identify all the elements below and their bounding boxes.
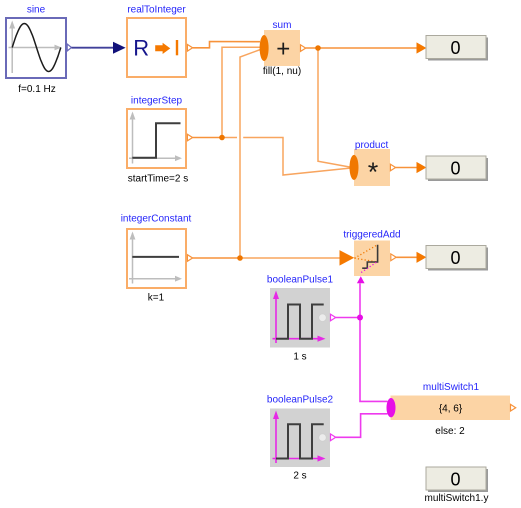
block integerStep [127, 109, 186, 168]
wire booleanPulse1.y to multiSwitch1.u[1] [360, 318, 388, 402]
wire integerStep.y to product.u[2] (gap at crossing x=240) [222, 137, 237, 139]
junction integerConstant.y [237, 255, 243, 261]
pin triggeredAdd.u input connector [340, 250, 355, 266]
svg-text:multiSwitch1: multiSwitch1 [423, 382, 480, 393]
pin product.y output connector [390, 164, 395, 171]
svg-text:integerStep: integerStep [131, 96, 183, 107]
display showValue2 [426, 246, 488, 271]
wire sum.y to product.u[1] [318, 48, 351, 167]
junction booleanPulse1.y [357, 315, 363, 321]
pin sum.y output connector [301, 45, 306, 52]
wire product.y to showValue1 [396, 167, 417, 169]
arrow into showValue2 [417, 252, 427, 263]
display showValue3 [426, 467, 488, 492]
wire integerStep.y to sum.u[2] [222, 47, 260, 137]
pin booleanPulse2.y output connector [331, 434, 336, 441]
pin multiSwitch1.y output connector [511, 404, 516, 411]
pin realToInteger.u input connector [113, 42, 126, 54]
svg-text:startTime=2 s: startTime=2 s [128, 174, 188, 185]
svg-text:integerConstant: integerConstant [121, 214, 192, 225]
svg-text:k=1: k=1 [148, 293, 165, 304]
block booleanPulse2 [270, 409, 330, 468]
display showValue1 [426, 156, 488, 181]
svg-text:R: R [133, 35, 149, 60]
svg-text:sine: sine [27, 5, 46, 16]
wire triggeredAdd.y to showValue2 [396, 256, 417, 258]
wire sine.y to realToInteger.u [72, 47, 115, 49]
junction sum.y [315, 45, 321, 51]
svg-text:2 s: 2 s [293, 471, 306, 482]
wire integerConstant.y to triggeredAdd.u [240, 257, 340, 259]
pin booleanPulse1.y output connector [331, 314, 336, 321]
arrow into showValue [417, 42, 427, 53]
wire realToInteger.y to sum.u[1] [193, 42, 260, 48]
block multiSwitch1 [387, 396, 511, 421]
svg-text:else: 2: else: 2 [435, 426, 465, 437]
svg-text:*: * [368, 157, 379, 187]
block sum (MultiSum) [260, 30, 300, 66]
svg-text:1 s: 1 s [293, 352, 306, 363]
svg-text:multiSwitch1.y: multiSwitch1.y [425, 493, 489, 504]
junction integerStep.y [219, 135, 225, 141]
block product (MultiProduct) [350, 149, 391, 187]
pin integerConstant.y output connector [187, 255, 192, 262]
block booleanPulse1 [270, 288, 330, 348]
pin integerStep.y output connector [187, 134, 192, 141]
svg-text:product: product [355, 140, 389, 151]
svg-text:triggeredAdd: triggeredAdd [343, 230, 400, 241]
pin realToInteger.y output connector [187, 45, 192, 52]
pin sine.y output connector [67, 44, 71, 51]
svg-text:f=0.1 Hz: f=0.1 Hz [18, 84, 56, 95]
wire booleanPulse1.y to junction [336, 317, 360, 319]
svg-text:0: 0 [450, 158, 460, 178]
block triggeredAdd [354, 241, 390, 277]
wire booleanPulse1.y to triggeredAdd.trigger [359, 283, 361, 317]
pin triggeredAdd.trigger input connector [357, 276, 365, 283]
arrow into showValue1 [417, 162, 427, 173]
svg-text:0: 0 [450, 248, 460, 268]
svg-text:realToInteger: realToInteger [127, 5, 186, 16]
wire integerConstant.y to junction [193, 257, 240, 259]
wire sum.y to showValue [306, 47, 417, 49]
svg-text:fill(1, nu): fill(1, nu) [263, 66, 301, 77]
svg-text:booleanPulse1: booleanPulse1 [267, 275, 334, 286]
svg-text:+: + [276, 36, 290, 63]
svg-text:0: 0 [450, 38, 460, 58]
block integerConstant [127, 229, 186, 288]
wire integerStep.y to junction [193, 137, 222, 139]
display showValue [426, 36, 488, 61]
block sine [6, 18, 66, 78]
block realToInteger U realToInteger [127, 18, 186, 77]
svg-text:0: 0 [450, 470, 460, 490]
svg-text:booleanPulse2: booleanPulse2 [267, 395, 334, 406]
wire integerConstant.y to sum.u[3] [240, 50, 261, 259]
svg-text:{4, 6}: {4, 6} [439, 403, 463, 414]
pin triggeredAdd.y output connector [391, 254, 396, 261]
wire booleanPulse2.y to multiSwitch1.u[2] [336, 414, 388, 438]
svg-text:sum: sum [273, 20, 292, 31]
